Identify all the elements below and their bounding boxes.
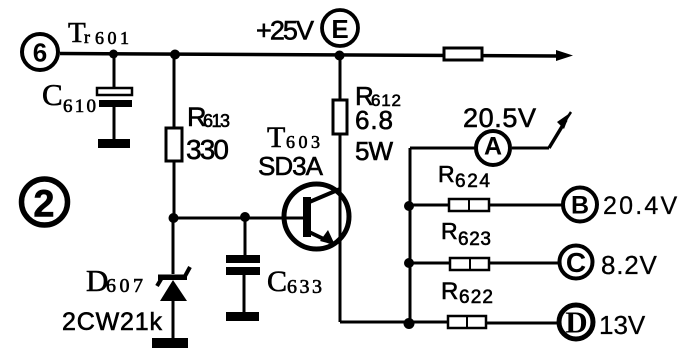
svg-text:603: 603 <box>286 132 320 152</box>
svg-text:8.2V: 8.2V <box>601 250 658 280</box>
svg-text:610: 610 <box>63 96 96 117</box>
svg-text:C: C <box>267 265 287 298</box>
svg-text:D: D <box>565 305 587 340</box>
svg-text:R: R <box>441 218 458 244</box>
svg-text:20.4V: 20.4V <box>603 192 678 220</box>
svg-text:E: E <box>331 14 348 44</box>
svg-text:622: 622 <box>459 287 493 308</box>
svg-text:601: 601 <box>95 28 129 48</box>
svg-text:20.5V: 20.5V <box>463 103 536 133</box>
svg-text:330: 330 <box>186 134 229 165</box>
svg-text:B: B <box>571 192 589 220</box>
svg-text:6: 6 <box>33 38 47 68</box>
svg-text:R: R <box>441 278 458 305</box>
svg-text:SD3A: SD3A <box>258 151 324 181</box>
svg-text:C: C <box>566 247 586 278</box>
svg-text:2: 2 <box>33 184 54 226</box>
svg-text:5W: 5W <box>355 136 393 166</box>
svg-text:613: 613 <box>203 111 230 131</box>
svg-text:2CW21k: 2CW21k <box>62 308 163 336</box>
svg-text:13V: 13V <box>599 310 646 340</box>
svg-text:+25V: +25V <box>256 16 314 46</box>
svg-text:r: r <box>84 27 90 47</box>
svg-text:C: C <box>42 77 63 112</box>
svg-text:R: R <box>438 161 455 187</box>
svg-text:633: 633 <box>287 276 322 298</box>
svg-text:A: A <box>484 133 502 161</box>
svg-text:607: 607 <box>106 275 143 297</box>
svg-text:624: 624 <box>455 171 490 192</box>
svg-text:6.8: 6.8 <box>355 105 393 135</box>
svg-text:T: T <box>267 121 285 154</box>
svg-text:623: 623 <box>458 229 491 250</box>
